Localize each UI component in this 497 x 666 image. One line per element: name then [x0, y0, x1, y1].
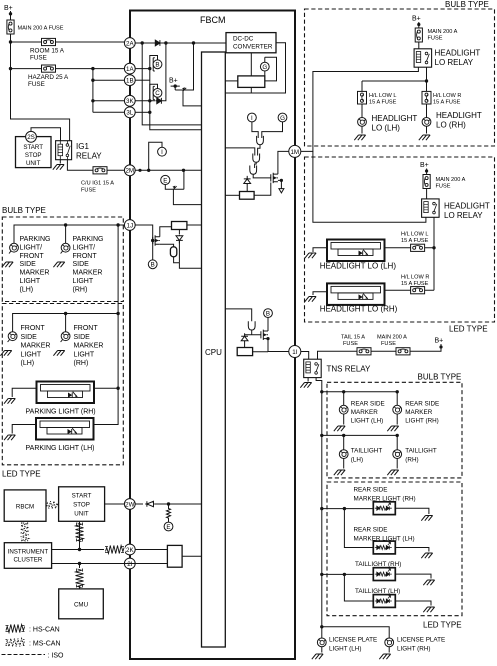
wire cpu headlight request	[225, 148, 255, 156]
svg-text:LO RELAY: LO RELAY	[444, 211, 483, 220]
svg-text:CONVERTER: CONVERTER	[233, 44, 273, 51]
fuse C/U IG1 15 A FUSE	[81, 167, 114, 194]
connector 3K	[124, 95, 135, 106]
gate A1	[257, 136, 264, 145]
diode D6 2W line	[145, 501, 155, 506]
svg-text:CPU: CPU	[205, 348, 222, 357]
wire 3L feed	[93, 111, 124, 113]
dashed box rear bulb	[327, 382, 462, 478]
svg-text:FRONT: FRONT	[74, 325, 99, 332]
bulb HEADLIGHT LO (LH)	[354, 106, 417, 140]
svg-text:LED TYPE: LED TYPE	[2, 470, 41, 479]
svg-text:FUSE: FUSE	[436, 184, 451, 190]
wire B to Q5 drain	[267, 330, 269, 332]
connector 2S	[26, 131, 37, 142]
ground tns coil	[300, 378, 311, 388]
connector B internal	[150, 56, 162, 72]
node junction hazard-1B	[91, 67, 94, 103]
svg-text:15 A FUSE: 15 A FUSE	[401, 281, 429, 287]
wire 2S to IG1 relay coil	[31, 128, 61, 142]
svg-text:(RH): (RH)	[73, 286, 88, 293]
svg-text:FUSE: FUSE	[30, 55, 47, 62]
svg-text:STOP: STOP	[73, 502, 90, 509]
svg-text:HEADLIGHT LO (RH): HEADLIGHT LO (RH)	[320, 305, 398, 314]
svg-text:PARKING: PARKING	[20, 236, 51, 243]
svg-text:LO (RH): LO (RH)	[436, 120, 466, 129]
svg-text:START: START	[23, 144, 43, 151]
dashed box bulb type left	[2, 217, 123, 302]
node junction room fuse	[9, 40, 12, 43]
transistor Q1	[182, 87, 186, 91]
RBCM box	[4, 490, 46, 521]
wire 2W diode	[135, 503, 143, 505]
svg-text:E: E	[166, 524, 170, 531]
connector G internal headlight	[278, 113, 287, 122]
svg-text:B+: B+	[435, 338, 444, 345]
svg-text:G: G	[262, 64, 267, 71]
svg-text:H/L LOW L: H/L LOW L	[369, 93, 396, 99]
svg-text:HEADLIGHT: HEADLIGHT	[436, 111, 482, 120]
svg-text:LED TYPE: LED TYPE	[423, 621, 462, 630]
svg-text:ROOM 15 A: ROOM 15 A	[30, 48, 65, 55]
node junction hazard fuse	[9, 67, 12, 70]
wire taillight feed	[322, 434, 399, 450]
bulb TAILLIGHT (LH)	[334, 448, 383, 476]
node B+ tns	[410, 338, 443, 352]
svg-text:B: B	[266, 310, 270, 317]
wire regulator left to CPU	[225, 80, 238, 82]
ic U4 parking driver box	[172, 222, 187, 230]
svg-text:IG1: IG1	[76, 142, 89, 151]
svg-text:SIDE: SIDE	[73, 261, 90, 268]
svg-text:LED TYPE: LED TYPE	[449, 325, 488, 334]
svg-text:MAIN 200 A FUSE: MAIN 200 A FUSE	[18, 26, 64, 32]
svg-text:2I: 2I	[127, 561, 132, 568]
connector E internal ign	[161, 175, 184, 189]
wire 3K feed	[93, 100, 124, 102]
led module HEADLIGHT LO (LH)	[305, 240, 397, 271]
twisted pair HS-CAN 2K	[104, 544, 125, 556]
svg-text:HEADLIGHT LO (LH): HEADLIGHT LO (LH)	[320, 262, 397, 271]
svg-text:LIGHT (LH): LIGHT (LH)	[351, 418, 383, 425]
svg-text:: MS-CAN: : MS-CAN	[29, 641, 61, 648]
svg-text:CLUSTER: CLUSTER	[13, 557, 42, 564]
bulb LICENSE PLATE LIGHT (LH)	[312, 637, 377, 660]
wire fuse to relay	[418, 42, 420, 49]
fuse MAIN 200 A headlight bulb	[415, 28, 457, 42]
fuse TAIL 15 A tns	[318, 335, 397, 360]
bulb REAR SIDE MARKER LIGHT (LH)	[334, 401, 385, 432]
svg-text:FUSE: FUSE	[343, 341, 358, 347]
svg-text:TAILLIGHT: TAILLIGHT	[351, 448, 383, 455]
relay HEADLIGHT LO RELAY led	[422, 199, 490, 220]
svg-text:RELAY: RELAY	[76, 152, 102, 161]
fuse ROOM 15 A FUSE	[30, 38, 65, 61]
svg-text:LIGHT: LIGHT	[74, 351, 95, 358]
dashed box led headlights	[305, 157, 495, 322]
svg-text:15 A FUSE: 15 A FUSE	[401, 238, 429, 244]
label parking rh	[73, 236, 104, 293]
bulb PARKING LIGHT/FRONT SIDE MARKER LIGHT (LH)	[2, 243, 19, 267]
connector B internal parking	[148, 260, 157, 269]
svg-text:MARKER: MARKER	[21, 343, 51, 350]
svg-text:H/L LOW R: H/L LOW R	[401, 275, 429, 281]
wire gate A4 to Q5	[245, 330, 261, 335]
connector 2W	[124, 499, 135, 510]
svg-text:E: E	[163, 177, 167, 184]
svg-text:REAR SIDE: REAR SIDE	[351, 401, 385, 408]
svg-text:B+: B+	[169, 78, 178, 85]
wire 3L join	[135, 111, 150, 113]
svg-text:HEADLIGHT: HEADLIGHT	[435, 49, 481, 58]
wire relay led out	[432, 217, 435, 290]
svg-text:B+: B+	[4, 5, 13, 12]
start stop unit box	[16, 137, 52, 168]
svg-text:1J: 1J	[127, 222, 134, 229]
wire diode to driver	[246, 184, 248, 191]
twisted pair HS-CAN ssu down	[76, 523, 84, 542]
relay TNS RELAY	[304, 359, 371, 377]
relay HEADLIGHT LO RELAY bulb	[414, 49, 480, 68]
connector 2M	[124, 165, 135, 176]
diode D5 tns	[241, 333, 248, 347]
svg-text:LIGHT (RH): LIGHT (RH)	[397, 646, 430, 653]
fuse H/L LOW R 15 A led	[385, 275, 435, 294]
wire hazard branch vertical	[92, 69, 94, 113]
svg-text:LO (LH): LO (LH)	[372, 123, 401, 132]
dashed box led type left	[2, 304, 123, 465]
ic U6 can transceiver box	[167, 545, 182, 567]
gate A2	[253, 154, 260, 163]
svg-text:C/U IG1 15 A: C/U IG1 15 A	[81, 181, 114, 187]
svg-text:G: G	[280, 115, 285, 122]
svg-text:FUSE: FUSE	[28, 81, 45, 88]
svg-text:START: START	[72, 493, 92, 500]
wire rh marker drop	[65, 314, 67, 332]
svg-text:15 A FUSE: 15 A FUSE	[369, 100, 397, 106]
wire driver to cpu	[225, 194, 239, 196]
relay IG1 RELAY	[56, 141, 103, 161]
label front marker lh	[21, 325, 51, 367]
wire U5 to 1I	[253, 339, 289, 352]
wire cpu to gate tns	[225, 309, 251, 321]
led module REAR SIDE MARKER LIGHT (LH) rear	[344, 509, 432, 559]
svg-text:TAILLIGHT: TAILLIGHT	[405, 448, 437, 455]
wire 2I to ic	[135, 563, 167, 565]
transistor Q3 ign	[173, 186, 177, 190]
connector 1I	[289, 346, 301, 358]
svg-text:1M: 1M	[290, 149, 299, 156]
mosfet Q2 headlight	[271, 173, 278, 183]
gate A4 tns	[248, 321, 255, 330]
svg-text:(LH): (LH)	[351, 457, 363, 464]
wire ssu to 2W	[105, 503, 125, 505]
bulb FRONT SIDE MARKER LIGHT (RH)	[53, 332, 70, 356]
svg-text:B: B	[151, 262, 155, 269]
connector I internal ign	[149, 142, 167, 170]
fuse MAIN 200 A tns	[377, 335, 410, 355]
wire Q3 collector to 2M	[183, 170, 185, 189]
ic U3 driver box	[240, 192, 255, 200]
svg-text:MARKER: MARKER	[74, 343, 104, 350]
connector E internal diag	[164, 522, 173, 531]
fuse MAIN 200 A headlight led	[423, 175, 466, 190]
diode D4 parking	[176, 230, 183, 263]
connector 2A	[124, 38, 135, 49]
svg-text:FRONT: FRONT	[73, 253, 98, 260]
wire U4 to CPU	[187, 224, 202, 226]
twisted pair MS-CAN rbcm down	[21, 522, 29, 541]
svg-text:B: B	[155, 62, 159, 69]
svg-text:LIGHT (RH): LIGHT (RH)	[405, 418, 438, 425]
svg-text:FRONT: FRONT	[21, 325, 46, 332]
svg-text:BULB TYPE: BULB TYPE	[418, 373, 462, 382]
wire tns output trunk	[316, 378, 323, 627]
svg-text:1A: 1A	[126, 66, 134, 73]
wire 2A node	[135, 41, 226, 44]
svg-text:1I: 1I	[292, 349, 297, 356]
svg-text:DC-DC: DC-DC	[233, 36, 254, 43]
svg-text:3L: 3L	[126, 110, 133, 117]
svg-text:UNIT: UNIT	[26, 160, 41, 167]
wire B+ trunk down	[11, 34, 70, 142]
svg-text:H/L LOW L: H/L LOW L	[401, 232, 428, 238]
svg-text:LIGHT: LIGHT	[21, 351, 42, 358]
wire transistor to CPU	[183, 90, 202, 106]
connector G internal dcdc	[260, 57, 276, 81]
svg-text:SIDE: SIDE	[21, 334, 38, 341]
node B+ headlight bulb	[412, 16, 421, 28]
wire room feed	[11, 41, 125, 43]
fuse H/L LOW L 15 A led	[385, 232, 435, 252]
wire parking driver return	[179, 263, 201, 269]
wire 3K diode up to 2A node	[165, 43, 166, 101]
svg-text:MARKER: MARKER	[73, 270, 103, 277]
wire 2M to CPU	[135, 169, 201, 172]
led module PARKING LIGHT (LH)	[4, 388, 118, 452]
wire 2K to ic	[135, 549, 167, 551]
svg-text:LO RELAY: LO RELAY	[435, 58, 474, 67]
wire regulator bottom bus	[225, 43, 285, 93]
connector C internal	[150, 84, 162, 101]
start stop unit box 2	[59, 487, 105, 522]
svg-text:H/L LOW R: H/L LOW R	[433, 93, 461, 99]
wire mosfet drain to 1M	[278, 151, 289, 174]
svg-text:1B: 1B	[126, 78, 134, 85]
svg-text:STOP: STOP	[25, 152, 42, 159]
resistor R1	[167, 504, 171, 522]
wire 2W to CPU	[155, 502, 202, 505]
wire 1B join	[135, 79, 150, 81]
legend ISO	[2, 653, 65, 660]
svg-text:REAR SIDE: REAR SIDE	[354, 527, 388, 534]
CMU box	[59, 589, 104, 619]
wire gate A1 out	[258, 145, 260, 156]
wire 1J to mosfet gate	[135, 225, 154, 242]
bulb PARKING LIGHT/FRONT SIDE MARKER LIGHT (RH)	[53, 243, 70, 267]
wire rear marker feed	[322, 390, 399, 405]
bulb HEADLIGHT LO (RH)	[419, 106, 482, 140]
ground arrow internal	[279, 189, 284, 193]
svg-text:PARKING LIGHT (RH): PARKING LIGHT (RH)	[26, 409, 96, 416]
svg-text:(RH): (RH)	[74, 360, 89, 367]
wire fuse to relay led	[426, 189, 428, 199]
svg-text:I: I	[161, 149, 163, 156]
svg-text:2K: 2K	[126, 547, 134, 554]
svg-text:TAIL 15 A: TAIL 15 A	[341, 335, 365, 341]
svg-text:BULB TYPE: BULB TYPE	[2, 206, 46, 215]
wire gate A3 out to mosfet	[253, 174, 271, 178]
svg-text:REAR SIDE: REAR SIDE	[405, 401, 439, 408]
svg-text:LICENSE PLATE: LICENSE PLATE	[397, 637, 445, 644]
svg-text:C: C	[155, 90, 160, 97]
node B+ headlight led	[420, 162, 429, 174]
connector 1J	[124, 220, 135, 231]
bulb REAR SIDE MARKER LIGHT (RH)	[387, 401, 439, 432]
twisted pair HS-CAN cmu	[76, 564, 84, 589]
wire cluster to 2I	[52, 562, 136, 565]
wire Q3 out to CPU	[173, 189, 201, 204]
svg-text:LIGHT: LIGHT	[73, 278, 94, 285]
wire license feed	[320, 625, 389, 638]
svg-text:MARKER: MARKER	[405, 409, 432, 416]
wire IG1 relay output	[67, 160, 124, 171]
bulb FRONT SIDE MARKER LIGHT (LH)	[0, 332, 17, 356]
wire front marker feed	[13, 312, 120, 332]
connector 3L	[124, 107, 135, 118]
connector 2I	[124, 558, 135, 569]
wire rh parking drop	[65, 225, 67, 243]
wire 1J feed parking bulbs	[14, 223, 124, 243]
svg-text:3K: 3K	[126, 98, 134, 105]
diode D3 clamp	[244, 176, 251, 185]
svg-text:FRONT: FRONT	[20, 253, 45, 260]
svg-text:B+: B+	[420, 162, 429, 169]
label front marker rh	[74, 325, 104, 367]
svg-text:HEADLIGHT: HEADLIGHT	[444, 202, 490, 211]
diode D2 on 3K line	[155, 98, 164, 104]
svg-text:MAIN 200 A: MAIN 200 A	[377, 335, 407, 341]
svg-text:LIGHT: LIGHT	[20, 278, 41, 285]
connector 1A	[124, 63, 135, 74]
wire U6 to CPU	[182, 555, 201, 557]
connector 2K	[124, 544, 135, 555]
svg-text:REAR SIDE: REAR SIDE	[354, 487, 388, 494]
led module PARKING LIGHT (RH)	[4, 382, 120, 416]
wire driver to mosfet source	[254, 179, 283, 196]
capacitor C1 capsule	[160, 244, 180, 262]
svg-text:: HS-CAN: : HS-CAN	[29, 627, 60, 634]
svg-text:LIGHT/: LIGHT/	[20, 244, 43, 251]
wire 1M to relay coil led	[313, 151, 426, 222]
svg-text:I: I	[251, 115, 253, 122]
ic U2 regulator box	[238, 76, 265, 88]
svg-text:LIGHT/: LIGHT/	[73, 244, 96, 251]
led module TAILLIGHT (RH) rear	[322, 561, 435, 585]
twisted pair MS-CAN rbcm-ssu	[46, 501, 58, 508]
connector I internal headlight	[248, 113, 257, 122]
svg-text:MARKER: MARKER	[351, 409, 378, 416]
led module REAR SIDE MARKER LIGHT (RH) rear	[322, 487, 433, 521]
wire gate A2 out	[255, 162, 257, 168]
wire vertical v1 to CPU	[142, 43, 201, 125]
legend HS-CAN	[6, 625, 60, 634]
wire 1I to tns coil	[301, 352, 309, 360]
svg-text:PARKING LIGHT (LH): PARKING LIGHT (LH)	[26, 445, 95, 452]
mosfet Q4 parking	[153, 235, 160, 245]
dc-dc converter box	[226, 33, 276, 53]
wire Q4 drain up to ic	[160, 227, 172, 237]
svg-text:MAIN 200 A: MAIN 200 A	[428, 29, 458, 35]
fuse HAZARD 25 A FUSE	[28, 65, 69, 88]
svg-text:LICENSE PLATE: LICENSE PLATE	[329, 637, 377, 644]
svg-text:2M: 2M	[125, 168, 134, 175]
wire 1M to relay coil	[301, 67, 419, 151]
instrument cluster box	[4, 543, 51, 569]
svg-text:(LH): (LH)	[20, 286, 34, 293]
node B+ battery main	[4, 5, 13, 20]
CPU box	[202, 52, 226, 647]
wire regulator to bus	[250, 87, 252, 93]
svg-text:HEADLIGHT: HEADLIGHT	[372, 114, 418, 123]
wire 3K to diode	[135, 100, 155, 102]
fuse H/L LOW L 15 A bulb	[358, 86, 397, 118]
wire Q4 gate to B	[152, 241, 154, 260]
wire relay out bus	[362, 67, 428, 86]
led module TAILLIGHT (LH) rear	[344, 574, 434, 612]
node B+ internal	[169, 78, 180, 91]
legend MS-CAN	[6, 639, 61, 648]
fuse MAIN 200 A FUSE	[7, 20, 64, 34]
svg-text:SIDE: SIDE	[20, 261, 37, 268]
svg-text:MARKER: MARKER	[20, 270, 50, 277]
svg-text:: ISO: : ISO	[48, 653, 65, 660]
label parking lh	[20, 236, 51, 293]
wire hazard feed	[11, 68, 125, 70]
svg-text:2S: 2S	[27, 134, 35, 141]
svg-text:FUSE: FUSE	[428, 36, 443, 42]
wire 1A-3L bus v2 to CPU	[135, 67, 201, 130]
wire 1J feed vertical led	[117, 225, 119, 388]
mosfet Q5 tns	[261, 330, 270, 341]
fuse H/L LOW R 15 A bulb	[422, 86, 461, 118]
svg-text:CMU: CMU	[74, 602, 88, 609]
dashed box rear led	[327, 482, 462, 616]
connector 1B	[124, 75, 135, 86]
wire cluster to 2K	[52, 521, 104, 551]
wire dcdc output down	[250, 53, 252, 76]
diode D1 on 2A line	[154, 40, 163, 46]
svg-text:HAZARD 25 A: HAZARD 25 A	[28, 74, 69, 81]
wire 1B feed	[93, 79, 124, 81]
bulb LICENSE PLATE LIGHT (RH)	[379, 637, 445, 660]
svg-text:LIGHT (LH): LIGHT (LH)	[329, 646, 361, 653]
ic U5 tns driver box	[237, 348, 252, 356]
svg-text:SIDE: SIDE	[74, 334, 91, 341]
gate A3	[250, 166, 257, 175]
bulb TAILLIGHT (RH)	[387, 448, 437, 476]
svg-text:FBCM: FBCM	[200, 15, 226, 25]
svg-text:(RH): (RH)	[405, 457, 418, 464]
svg-text:B+: B+	[412, 16, 421, 23]
dashed box bulb headlights	[305, 9, 495, 146]
svg-text:INSTRUMENT: INSTRUMENT	[8, 549, 49, 556]
svg-text:TNS RELAY: TNS RELAY	[327, 365, 372, 374]
svg-text:RBCM: RBCM	[16, 504, 34, 511]
svg-text:FUSE: FUSE	[81, 188, 96, 194]
wire I G to gate	[252, 122, 283, 138]
svg-text:UNIT: UNIT	[74, 511, 89, 518]
